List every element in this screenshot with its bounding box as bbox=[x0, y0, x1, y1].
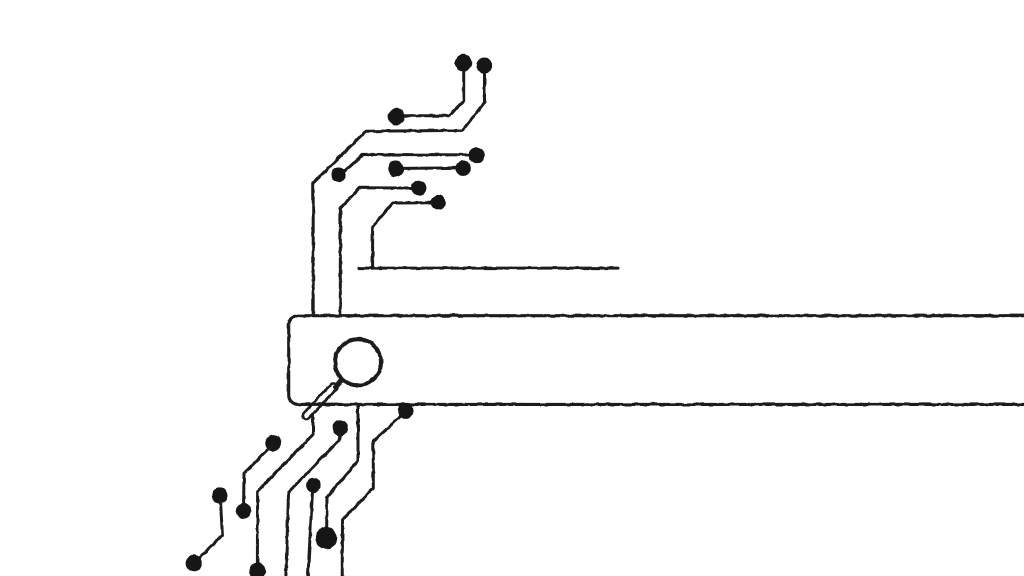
wire below-bar B1 from handle bbox=[257, 407, 313, 563]
pad trace4 right bbox=[456, 161, 471, 176]
magnifier neck bbox=[335, 380, 342, 388]
pad B2 start bbox=[332, 420, 348, 436]
magnifier lens circle bbox=[335, 339, 381, 385]
pad B3 start bbox=[306, 478, 321, 493]
pad B6 start bbox=[265, 435, 281, 451]
wire below-bar B4 bbox=[327, 404, 358, 528]
wire trace6 bbox=[373, 203, 432, 268]
bar bottom edge over handle bbox=[304, 403, 337, 406]
pad trace5 bbox=[411, 180, 426, 195]
magnifier handle capsule bbox=[301, 382, 339, 421]
pad trace6 bbox=[431, 195, 446, 210]
pad trace1 top bbox=[455, 54, 472, 71]
wire trace1 upper bbox=[400, 69, 464, 116]
pad B1 end bbox=[249, 563, 266, 576]
wire trace3 bbox=[341, 154, 470, 175]
pad trace3 left bbox=[332, 168, 347, 183]
wire below-bar B3 bbox=[308, 491, 313, 576]
pad B4 end large bbox=[315, 527, 337, 549]
pad B6 end bbox=[236, 503, 252, 519]
pad trace3 right bbox=[468, 147, 484, 163]
pad trace2 top bbox=[476, 58, 492, 74]
wire below-bar B5 bbox=[342, 414, 403, 576]
pad trace1 end bbox=[388, 108, 405, 125]
wire trace7 horizontal stub bbox=[359, 267, 618, 270]
search bar bbox=[289, 316, 1024, 405]
wire trace4 bbox=[402, 166, 457, 170]
wire trace5 bbox=[340, 188, 412, 316]
wire trace2 bbox=[313, 72, 484, 316]
pad B5 start on bar edge bbox=[398, 403, 414, 419]
pad trace4 left bbox=[388, 161, 404, 177]
wire below-bar B7 bbox=[196, 502, 223, 562]
pad B7 start bbox=[212, 487, 228, 503]
pad B7 end bbox=[186, 555, 203, 572]
wire below-bar B2 bbox=[286, 434, 340, 576]
wire below-bar B6 bbox=[244, 447, 271, 505]
